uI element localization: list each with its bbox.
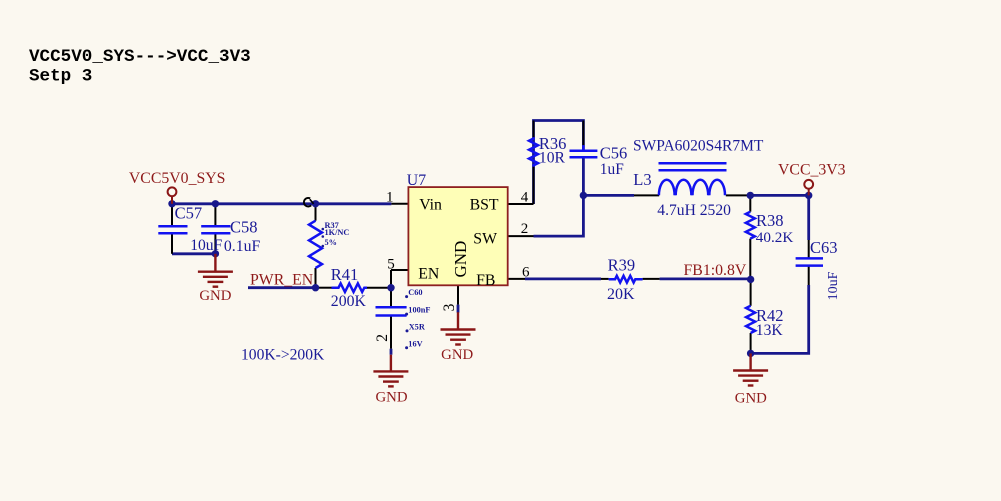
svg-text:VCC5V0_SYS--->VCC_3V3: VCC5V0_SYS--->VCC_3V3 [29, 47, 251, 67]
svg-text:2: 2 [521, 221, 529, 237]
svg-text:U7: U7 [407, 172, 426, 189]
svg-text:100K->200K: 100K->200K [241, 347, 325, 364]
svg-text:3: 3 [441, 303, 458, 311]
svg-text:VCC5V0_SYS: VCC5V0_SYS [129, 170, 226, 187]
svg-text:C57: C57 [175, 203, 203, 222]
svg-text:16V: 16V [408, 339, 422, 348]
svg-text:SWPA6020S4R7MT: SWPA6020S4R7MT [633, 138, 764, 155]
svg-text:4.7uH 2520: 4.7uH 2520 [657, 202, 731, 219]
svg-text:5%: 5% [325, 238, 337, 247]
svg-text:FB1:0.8V: FB1:0.8V [684, 262, 747, 279]
svg-text:6: 6 [522, 265, 530, 281]
svg-text:5: 5 [387, 257, 395, 273]
svg-text:100nF: 100nF [408, 306, 430, 315]
svg-text:PWR_EN: PWR_EN [250, 271, 314, 288]
svg-text:10uF: 10uF [826, 271, 841, 300]
svg-text:1uF: 1uF [600, 161, 624, 178]
svg-text:C63: C63 [810, 238, 838, 257]
svg-text:Vin: Vin [419, 197, 442, 214]
svg-text:GND: GND [199, 288, 231, 304]
svg-text:10R: 10R [539, 149, 566, 166]
svg-text:C60: C60 [408, 288, 422, 297]
svg-text:EN: EN [418, 266, 440, 283]
svg-text:0.1uF: 0.1uF [224, 238, 261, 255]
svg-text:4: 4 [521, 190, 529, 206]
svg-text:10uF: 10uF [190, 237, 222, 254]
svg-text:R41: R41 [331, 265, 359, 284]
svg-text:2: 2 [374, 334, 391, 342]
svg-text:13K: 13K [756, 322, 784, 339]
svg-text:GND: GND [375, 390, 407, 406]
svg-text:1: 1 [386, 189, 394, 205]
svg-text:VCC_3V3: VCC_3V3 [778, 161, 846, 178]
svg-text:C58: C58 [230, 218, 258, 237]
svg-text:GND: GND [441, 347, 473, 363]
svg-text:BST: BST [470, 197, 499, 214]
svg-text:C56: C56 [600, 144, 628, 163]
svg-text:X5R: X5R [409, 323, 426, 332]
svg-text:SW: SW [473, 231, 497, 248]
svg-text:200K: 200K [331, 293, 367, 310]
svg-text:R38: R38 [756, 211, 784, 230]
svg-text:40.2K: 40.2K [756, 229, 794, 246]
svg-text:Setp 3: Setp 3 [29, 67, 92, 87]
svg-text:20K: 20K [607, 286, 635, 303]
svg-text:1K/NC: 1K/NC [325, 228, 350, 237]
svg-text:L3: L3 [633, 170, 651, 189]
svg-text:R39: R39 [608, 255, 636, 274]
svg-text:GND: GND [451, 241, 470, 278]
svg-text:FB: FB [476, 272, 495, 289]
svg-text:GND: GND [735, 390, 767, 406]
